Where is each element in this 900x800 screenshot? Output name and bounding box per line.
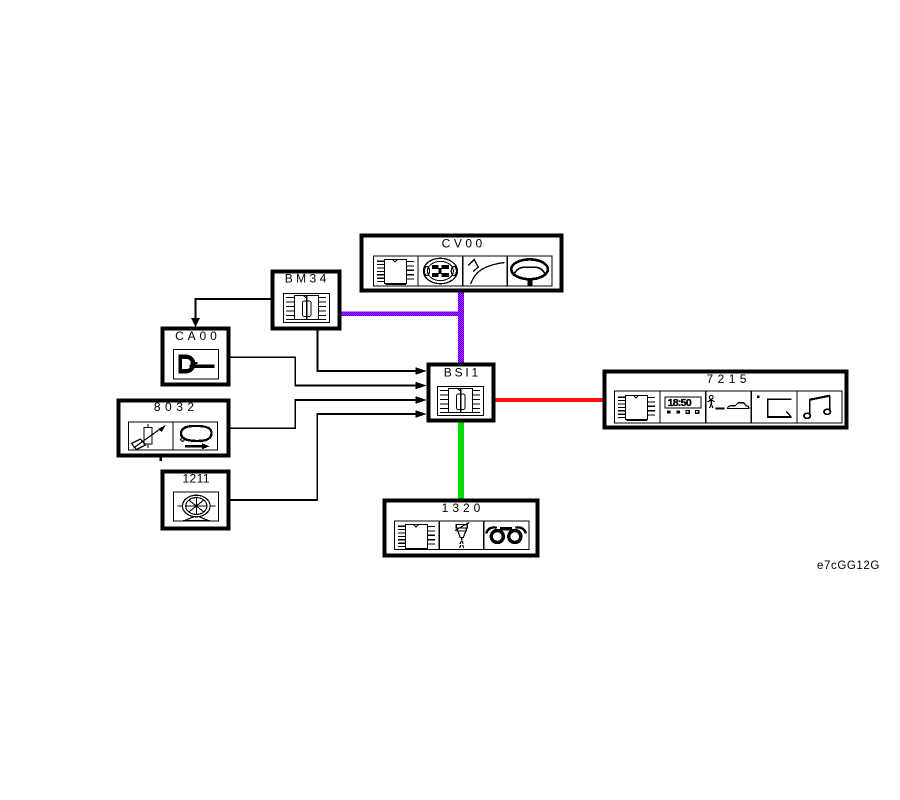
svg-text:1320: 1320	[442, 501, 485, 515]
svg-text:e7cGG12G: e7cGG12G	[817, 560, 880, 572]
7215 icon: music note	[804, 396, 831, 419]
green wire BSI1 to 1320	[458, 421, 464, 500]
CA00 outer box	[163, 329, 229, 385]
1320 outer box	[385, 501, 538, 556]
CV00 icon: steering wheel	[511, 259, 548, 286]
red wire BSI1 to 7215	[494, 398, 605, 402]
BSI1 outer box	[429, 365, 494, 421]
7215 icon: display screen bracket	[757, 396, 792, 418]
svg-text:BSI1: BSI1	[444, 366, 481, 380]
CV00 outer box	[362, 236, 562, 291]
7215 icon: electronic module chip	[618, 396, 655, 421]
7215 icon: clock display 18:50	[665, 397, 701, 413]
8032 icon: fuel level sensor	[132, 424, 167, 450]
1211 outer box	[163, 472, 229, 529]
wire CA00 to BSI1 pin2	[229, 357, 419, 385]
svg-text:1211: 1211	[182, 472, 209, 486]
wire 8032 to BSI1 pin3	[229, 400, 419, 428]
CV00 icon: steering column stalk	[468, 260, 505, 285]
8032 icon strip frame	[129, 422, 218, 450]
wire BM34 to CA00	[196, 299, 273, 320]
arrowhead BSI1 pin2	[416, 382, 428, 389]
svg-text:CV00: CV00	[442, 237, 486, 251]
arrowhead BSI1 pin3	[416, 396, 428, 403]
CA00 icon: ignition key	[179, 355, 215, 374]
svg-text:18:50: 18:50	[668, 397, 692, 409]
arrowhead BSI1 pin1	[416, 367, 428, 374]
svg-text:8032: 8032	[154, 400, 199, 414]
wire 1211 to BSI1 pin4	[229, 414, 419, 500]
arrowhead BSI1 pin4	[416, 410, 428, 417]
BSI1 icon: fuse/relay box	[438, 387, 484, 416]
CV00 icon strip frame	[374, 256, 553, 286]
1320 icon: glow plug rings	[486, 527, 526, 542]
svg-text:CA00: CA00	[175, 329, 221, 343]
scan speck under 8032	[160, 457, 163, 461]
purple CAN wire horizontal BM34 to vertical run	[340, 312, 458, 317]
arrowhead into CA00	[191, 318, 200, 327]
1211 icon frame	[174, 492, 219, 521]
CV00 icon: electronic module chip	[377, 260, 414, 285]
BM34 outer box	[273, 272, 340, 329]
7215 outer box	[605, 372, 847, 428]
7215 icon strip frame	[615, 391, 843, 423]
1211 icon: cooling fan	[178, 495, 216, 520]
wire BM34 to BSI1 pin1	[318, 329, 420, 371]
BM34 icon: fuse/relay box	[284, 294, 330, 323]
CA00 icon frame	[174, 350, 219, 380]
8032 icon: coolant loop	[181, 426, 212, 449]
1320 icon: electronic module chip	[398, 525, 435, 550]
svg-text:7215: 7215	[707, 372, 751, 386]
7215 icon: driver and car	[708, 395, 749, 408]
purple CAN wire vertical CV00 to BSI1	[458, 291, 464, 365]
1320 icon strip frame	[395, 521, 530, 550]
8032 outer box	[119, 401, 229, 456]
svg-text:BM34: BM34	[285, 272, 330, 286]
CV00 icon: rotary connector oval	[423, 258, 457, 283]
1320 icon: injector	[455, 523, 470, 549]
